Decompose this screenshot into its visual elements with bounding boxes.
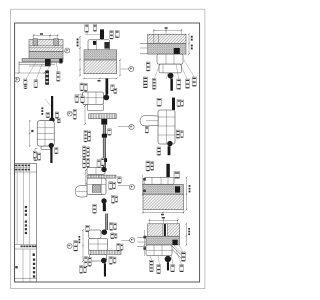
detail 1 callout bubble bbox=[15, 77, 20, 82]
detail 9 top blob bbox=[102, 229, 108, 235]
detail 2 bar stem bbox=[101, 39, 103, 42]
detail 5 far-left label b bbox=[81, 96, 85, 103]
detail 3 profile lower tier bbox=[159, 64, 181, 73]
detail 5 left label b bbox=[84, 83, 87, 91]
detail 6 handle stem label bbox=[145, 127, 148, 134]
detail 9 right label b bbox=[120, 244, 123, 250]
detail 10 brick hatched block bbox=[148, 224, 180, 236]
detail 7 right dim rotated text bbox=[189, 185, 191, 192]
detail 5 mullion pipe bbox=[103, 125, 106, 167]
detail 1 label b bbox=[24, 85, 27, 89]
detail 1 right anchor strip bbox=[54, 39, 59, 46]
detail 1 label c bbox=[34, 80, 38, 88]
detail 8 section bubble with tail bbox=[118, 184, 135, 189]
detail 5 pipe connector 2 bbox=[102, 134, 107, 138]
detail 2 profile dark corner bbox=[104, 42, 109, 49]
detail 4 left dimension line bbox=[29, 120, 31, 147]
detail 10 label a bbox=[149, 260, 153, 272]
detail 9 left dimension line bbox=[82, 229, 84, 262]
detail 5 pipe rotated label c bbox=[83, 146, 86, 157]
detail 7 bottom dim extensions bbox=[143, 210, 184, 214]
detail 7 bottom dim text bbox=[161, 214, 164, 216]
detail 8 right label b bbox=[113, 182, 116, 189]
detail 2 mortar dotted band bbox=[84, 50, 117, 60]
detail 10 dim text A bbox=[162, 217, 165, 219]
detail 5 window bar bbox=[106, 79, 109, 95]
detail 6 handle inner line bbox=[146, 120, 158, 122]
detail 8 rotated label b bbox=[86, 158, 89, 167]
detail 5 left extension lines bbox=[75, 95, 83, 98]
detail 10 mortar dotted band bbox=[146, 236, 180, 245]
detail 1 mortar dotted band bbox=[29, 52, 63, 59]
detail 9 mullion pipe top bbox=[105, 214, 107, 231]
title block header text cells bbox=[15, 165, 30, 171]
detail 6 right labels bbox=[176, 130, 183, 138]
detail 3 right dim rotated text b bbox=[191, 45, 193, 50]
detail 4 rotated text 2000 bbox=[41, 107, 43, 114]
detail 4 profile dividers bbox=[37, 121, 54, 146]
detail 4 frame profile box bbox=[37, 121, 54, 146]
detail 4 glazing blob bottom bbox=[49, 143, 54, 148]
title block lower column lines bbox=[23, 249, 30, 282]
detail 8 ledge end label bbox=[118, 177, 122, 184]
detail 5 glazing blob bbox=[103, 95, 109, 101]
detail 4 glazing blob top bbox=[49, 117, 54, 122]
detail 9 bottom bar bbox=[104, 263, 106, 276]
detail 8 left dimension line bbox=[85, 169, 87, 185]
title block single char bbox=[33, 253, 35, 256]
detail 2 left dimension line bbox=[79, 36, 81, 76]
detail 9 bottom right label a bbox=[109, 257, 113, 265]
detail 7 bottom dimension line bbox=[142, 212, 184, 214]
detail 2 profile divider bbox=[96, 40, 98, 50]
detail 7 right dimension line bbox=[186, 177, 188, 211]
detail 4 right label b bbox=[57, 118, 60, 123]
detail 9 top left label bbox=[85, 225, 89, 231]
detail 9 mid right label b bbox=[115, 234, 118, 239]
detail 1 top dim extension lines bbox=[34, 34, 58, 40]
detail 3 profile dividers bbox=[163, 54, 174, 73]
detail 2 brick hatched block bbox=[84, 60, 117, 74]
detail 8 bottom blob bbox=[101, 198, 106, 203]
detail 10 window frame profile bbox=[146, 245, 172, 256]
detail 7 left dimension line bbox=[142, 175, 146, 196]
detail 6 bottom label a bbox=[157, 147, 161, 155]
title block row line y244 bbox=[15, 244, 37, 246]
detail 9 bottom left label c bbox=[79, 266, 82, 274]
detail 7 top label b bbox=[150, 162, 153, 171]
detail 10 label b bbox=[157, 265, 161, 274]
title block header row line bbox=[15, 167, 31, 169]
detail 10 right dim rotated text bbox=[188, 228, 190, 235]
detail 5 pipe connector block bbox=[101, 119, 107, 125]
detail 9 right label a bbox=[117, 243, 120, 251]
detail 10 right dimension line bbox=[186, 223, 188, 246]
detail 8 pipe end blob bbox=[101, 167, 106, 172]
title block design-institute rotated text bbox=[25, 206, 27, 216]
detail 5 pipe rotated label a bbox=[84, 130, 87, 142]
title block outline bbox=[15, 164, 37, 282]
detail 6 right top label b bbox=[181, 100, 184, 106]
title block header column lines bbox=[17, 164, 30, 172]
detail 10 glass bar below bbox=[167, 262, 169, 270]
detail 1 brick wall hatched block bbox=[29, 40, 63, 52]
label box above title block bbox=[33, 149, 37, 159]
detail 8 bottom bar bbox=[103, 203, 106, 211]
detail 8 handle inner line bbox=[77, 190, 88, 192]
detail 3 top dimension line bbox=[153, 30, 182, 32]
detail 3 top dim extensions bbox=[154, 29, 182, 34]
detail 6 window bar bbox=[172, 98, 175, 110]
detail 5 pipe rotated label d bbox=[86, 147, 89, 156]
detail 4 right label a bbox=[55, 112, 59, 118]
detail 9 bottom left label a bbox=[84, 257, 88, 268]
detail 2 label a bbox=[85, 25, 89, 33]
detail 8 ledge hatched strip bbox=[87, 175, 116, 178]
detail 5 right label a bbox=[111, 85, 114, 91]
detail 8 top right label a bbox=[97, 160, 100, 168]
detail 8 top tier box bbox=[87, 168, 105, 175]
inner drawing frame bbox=[15, 23, 200, 282]
detail 2 left dim rotated text bbox=[77, 39, 79, 47]
detail 1 sill board dotted band bbox=[22, 58, 63, 61]
detail 3 right dimension line bbox=[188, 33, 190, 55]
detail 1 bottom dimension line bbox=[15, 72, 45, 74]
detail 9 profile lower tier bbox=[90, 254, 107, 261]
detail 10 label c bbox=[171, 265, 175, 272]
detail 1 dark mullion end label bbox=[45, 70, 49, 84]
detail 1 label d bbox=[56, 72, 60, 82]
detail 8 bottom right label a bbox=[111, 196, 114, 204]
detail 3 label a bbox=[143, 77, 147, 88]
detail 5 profile dividers bbox=[83, 92, 104, 104]
detail 5 pipe connector 3 bbox=[102, 158, 107, 162]
detail 3 brick hatched block bbox=[148, 34, 186, 43]
detail 2 right top label a bbox=[110, 31, 114, 40]
detail 8 rotated label a bbox=[83, 158, 86, 168]
detail 5 ledge hatched strip bbox=[89, 114, 117, 119]
title block header row line 2 bbox=[15, 171, 37, 173]
detail 5 section bubble with tail bbox=[118, 124, 134, 129]
detail 4 mullion bar upper bbox=[51, 96, 53, 118]
title block left small char bbox=[15, 266, 17, 268]
detail 9 profile middle hatched strip bbox=[89, 250, 121, 254]
detail 3 right dim rotated text a bbox=[191, 36, 193, 41]
detail 5 pipe rotated label b bbox=[88, 131, 91, 141]
detail 3 leader lines bbox=[155, 60, 195, 79]
detail 1 top dimension line bbox=[33, 35, 59, 37]
detail 6 frame profile box bbox=[158, 110, 175, 144]
detail 5 left label a bbox=[80, 83, 83, 91]
detail 7 top label a bbox=[146, 161, 150, 171]
detail 8 frame profile box bbox=[87, 178, 106, 195]
detail 7 brick hatched block bbox=[143, 194, 184, 209]
detail 4 bottom left label b bbox=[38, 153, 41, 160]
detail 3 block inner verticals bbox=[154, 34, 159, 43]
detail 1 section bubble with tail bbox=[63, 48, 70, 53]
detail 3 label e bbox=[192, 77, 196, 86]
detail 2 frame profile box bbox=[88, 40, 110, 50]
detail 5 right label b bbox=[114, 88, 117, 93]
detail 3 left label bbox=[146, 62, 150, 71]
detail 6 profile dividers bbox=[158, 110, 175, 144]
detail 3 label c bbox=[177, 79, 181, 89]
detail 10 leader lines bbox=[150, 245, 183, 265]
detail 5 far-left label a bbox=[75, 95, 79, 102]
title block project rotated text bbox=[25, 221, 27, 235]
detail 7 profile dividers bbox=[152, 177, 168, 184]
detail 10 glazing black dot bbox=[165, 256, 171, 262]
detail 1 ceiling profile lines bbox=[19, 62, 63, 66]
detail 9 bottom left label d bbox=[83, 266, 86, 273]
detail 7 frame profile bbox=[144, 177, 174, 184]
detail 1 right steel end piece bbox=[59, 59, 62, 64]
detail 4 callout bubble bbox=[67, 111, 72, 116]
detail 8 profile cross-hatch square bbox=[92, 185, 100, 193]
detail 1 brick course lines bbox=[29, 45, 63, 48]
detail 3 dim text A bbox=[165, 27, 168, 29]
detail 4 profile lower tier bbox=[41, 146, 51, 149]
title block row line y249 bbox=[15, 248, 37, 250]
detail 4 bottom left label a bbox=[34, 152, 37, 160]
detail 2 right dimension line bbox=[119, 59, 121, 76]
detail 9 profile dividers bbox=[89, 238, 108, 250]
detail 9 section bubble right with tail bbox=[122, 238, 135, 243]
detail 2 label b bbox=[93, 25, 97, 32]
detail 1 dim text A bbox=[40, 33, 43, 35]
detail 2 bottom dimension line bbox=[83, 78, 117, 80]
title block drawing number rotated text bbox=[33, 259, 35, 278]
detail 7 embedded steel black piece bbox=[175, 186, 180, 192]
detail 4 mullion bar lower bbox=[50, 148, 52, 164]
detail 5 pipe right label bbox=[108, 129, 112, 136]
detail 7 mortar dotted band bbox=[143, 184, 184, 194]
detail 3 glass bar below bbox=[170, 79, 173, 91]
detail 3 label d bbox=[185, 79, 189, 88]
detail 9 callout bubble left bbox=[67, 244, 72, 249]
detail 10 top dim extensions bbox=[149, 219, 177, 224]
detail 9 top right label a bbox=[109, 223, 113, 231]
detail 9 frame profile box bbox=[89, 238, 108, 250]
detail 4 callout label box bbox=[73, 109, 76, 119]
detail 8 handle shape bbox=[75, 186, 87, 198]
detail 2 small black square bbox=[93, 41, 96, 45]
detail 6 right top label a bbox=[177, 100, 180, 107]
detail 10 block white channel bbox=[162, 224, 167, 236]
detail 7 window bar bbox=[166, 164, 169, 177]
detail 2 window bar (steel) bbox=[100, 29, 104, 39]
detail 8 bottom rotated label bbox=[93, 204, 97, 213]
detail 4 bar left label bbox=[46, 112, 50, 117]
detail 3 window frame profile bbox=[157, 54, 183, 64]
detail 9 bottom blob bbox=[101, 258, 107, 264]
detail 6 top label a bbox=[157, 98, 161, 106]
detail 10 top dimension line bbox=[149, 220, 179, 222]
detail 3 embedded steel black piece bbox=[174, 48, 180, 54]
title block small text row bbox=[21, 246, 37, 248]
detail 3 mortar dotted band bbox=[148, 43, 186, 54]
detail 9 top right label b bbox=[114, 223, 117, 230]
detail 1 left anchor strip bbox=[33, 39, 38, 46]
detail 6 handle shape bbox=[140, 116, 158, 126]
detail 10 left break lines bbox=[137, 238, 146, 247]
detail 2 bottom dim text bbox=[98, 80, 101, 82]
detail 8 profile dividers bbox=[87, 178, 106, 195]
detail 10 right label bbox=[181, 252, 185, 261]
detail 2 right top label b bbox=[115, 31, 119, 38]
detail 5 left dimension line bbox=[84, 105, 86, 125]
detail 9 dim rotated text bbox=[79, 236, 81, 243]
detail 3 left break lines bbox=[140, 44, 148, 54]
detail 10 embedded steel black piece bbox=[172, 240, 177, 245]
detail 1 embedded steel black piece bbox=[45, 59, 51, 66]
detail 4 bottom right labels bbox=[55, 148, 58, 154]
detail 8 top right label b bbox=[101, 158, 104, 166]
detail 9 top tier box bbox=[89, 230, 101, 238]
detail 4 dim text mark bbox=[31, 130, 33, 132]
detail 10 bar in channel bbox=[164, 224, 166, 243]
detail 9 bottom right label b bbox=[113, 257, 116, 263]
detail 5 frame profile box bbox=[83, 92, 104, 104]
detail 10 left dimension line bbox=[143, 230, 146, 256]
detail 1 left extension vertical bbox=[18, 61, 20, 73]
detail 10 profile dividers bbox=[146, 245, 172, 256]
title block middle column lines bbox=[17, 172, 30, 245]
detail 6 glazing blob bbox=[167, 141, 172, 146]
detail 10 label d bbox=[180, 265, 184, 272]
detail 1 label a bbox=[24, 79, 27, 85]
detail 8 bottom right label b bbox=[115, 196, 118, 202]
detail 1 leader lines bbox=[26, 62, 58, 80]
detail 5 profile lower tier bbox=[88, 104, 104, 111]
outer border bbox=[11, 9, 205, 288]
detail 6 glass bar below bbox=[168, 146, 171, 155]
detail 3 glazing black dot bbox=[168, 73, 174, 79]
sheet background bbox=[0, 0, 212, 300]
detail 2 section bubble with tail bbox=[121, 66, 134, 71]
detail 7 right top label bbox=[174, 172, 180, 179]
detail 8 top tier divider bbox=[95, 168, 97, 175]
detail 3 label b bbox=[152, 78, 156, 89]
detail 9 mid right label a bbox=[111, 233, 115, 239]
title block row line y278 bbox=[15, 277, 37, 279]
detail 4 bar top leader bbox=[45, 99, 51, 106]
detail 9 bottom left label b bbox=[88, 257, 91, 266]
detail 9 left label box bbox=[74, 241, 78, 252]
detail 10 flashing diagonal piece bbox=[172, 246, 184, 259]
detail 2 leader line bbox=[85, 32, 102, 34]
detail 8 right label a bbox=[109, 182, 113, 190]
